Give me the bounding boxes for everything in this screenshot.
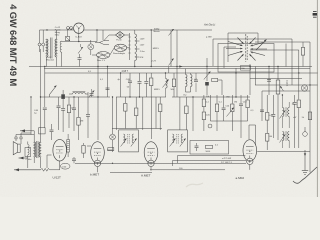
IF transformer B2: [168, 130, 188, 152]
capacitor C21: [267, 80, 271, 82]
wire x250 down from switch: [249, 64, 251, 95]
wire: third bus line: [45, 72, 318, 74]
svg-text:Marg: Marg: [55, 31, 61, 34]
svg-text:4,68 T: 4,68 T: [122, 71, 129, 73]
field coil label: [26, 158, 32, 161]
wire: bottom line y169.8: [152, 169, 225, 171]
wire x179.9: [179, 97, 181, 130]
resistor x232.3: [231, 95, 234, 131]
capacitor C10: [61, 104, 65, 132]
dial lamp La1: [88, 40, 94, 55]
capacitor C15: [138, 73, 142, 97]
IF transformer B1: [119, 130, 139, 152]
svg-text:Punkt: Punkt: [116, 39, 122, 42]
svg-text:x-P/T GW: x-P/T GW: [222, 158, 231, 160]
switch contact S2b lower: [169, 59, 174, 66]
value labels right block: [269, 104, 298, 139]
wire x40.5: [40, 49, 41, 130]
svg-text:2M: 2M: [80, 121, 83, 123]
mixer grid chain x207: [204, 58, 211, 95]
wire x156: [155, 97, 157, 129]
faint paper crease: [186, 183, 203, 187]
resistor column x267: [266, 95, 269, 150]
wire: bus y128.5: [112, 128, 162, 130]
wire x186.4: [185, 97, 188, 130]
label 600 ohm: [154, 29, 161, 34]
resistor column x273: [271, 95, 275, 138]
svg-text:Fkt: Fkt: [242, 67, 245, 70]
capacitor C13: [106, 88, 110, 90]
resistor R3 label: [153, 48, 160, 50]
tube V3 UCH11: [144, 142, 158, 167]
resistor R8: [124, 97, 127, 129]
resistor R7: [82, 143, 85, 158]
svg-text:Netz: Netz: [55, 34, 60, 37]
socket ellipse under tube V1: [60, 163, 70, 169]
tube V1 label UCL11: [53, 176, 62, 180]
wire x286: [285, 44, 287, 67]
resistor x298.8: [250, 50, 300, 148]
capacitor C16: [144, 73, 148, 97]
volume pot P1: [276, 67, 283, 141]
svg-text:b.MET: b.MET: [90, 173, 99, 177]
wire x168.8: [168, 67, 170, 74]
wire x292: [291, 50, 293, 85]
variable coil with arrow: [163, 73, 169, 97]
wire x44.8: [44, 67, 46, 108]
wire x210.4: [209, 95, 211, 121]
capacitor C19 above tube V1: [50, 124, 54, 140]
resistor R14 speaker line zigzag: [41, 164, 60, 172]
wire lamp branch: [62, 29, 98, 42]
wire x310 long: [255, 42, 310, 172]
svg-text:Lautst.: Lautst.: [286, 80, 289, 87]
tap labels: [140, 39, 145, 59]
band switch frame mid: [218, 44, 274, 73]
detector coil pair upper: [280, 95, 290, 128]
svg-text:Messbd: Messbd: [46, 60, 54, 62]
switch arrow big left: [50, 86, 57, 98]
tapped heater dropper coil: [135, 30, 140, 67]
resistor R9: [135, 97, 138, 129]
field coil winding: [25, 142, 31, 161]
trimmer arrow right: [227, 108, 235, 117]
ballast tube / lamp V5 on rail: [74, 23, 84, 33]
switch lever arrow: [256, 40, 267, 51]
band switch frame inner: [224, 47, 236, 68]
corner stamp mark: [313, 12, 317, 18]
speaker feed arrow upper: [20, 129, 34, 134]
cathode resistor V1: [47, 155, 52, 168]
label 2,73: [152, 60, 157, 62]
band switch frame outer: [213, 39, 292, 66]
capacitor C14: [127, 73, 132, 97]
wire: bottom line y172.3: [110, 171, 152, 173]
ground electrode right: [302, 150, 308, 175]
jack circle under divider: [208, 124, 212, 128]
resistor R20: [301, 42, 304, 67]
mains transformer T1: [46, 30, 62, 67]
output network box: [190, 141, 229, 155]
wire x151.5 anode V3: [151, 97, 153, 139]
tube V4 UY11 rectifier: [243, 140, 257, 165]
wire: top supply rail: [40, 29, 213, 30]
svg-text:MΩ15: MΩ15: [154, 89, 160, 91]
svg-text:A.MET: A.MET: [141, 174, 151, 178]
resistor R5: [67, 97, 74, 128]
svg-text:GW: GW: [226, 97, 230, 99]
tube V1 UCL11 output pentode: [53, 139, 67, 161]
wire: right rail y91: [262, 90, 310, 92]
wire x247.6: [246, 95, 249, 121]
volume pot label: [286, 80, 289, 87]
value labels right cluster: [206, 96, 211, 117]
choke label: [113, 52, 125, 55]
loudspeaker LS: [13, 137, 22, 155]
svg-text:4 M: 4 M: [140, 57, 144, 59]
transformer top connection box: [39, 128, 46, 134]
lamp V5 label: [76, 36, 83, 39]
output transformer T2: [33, 130, 41, 168]
label 4,68 T: [122, 71, 129, 73]
wire: agc return y159.6: [173, 160, 246, 166]
wire: mid bus y97 left: [41, 96, 111, 98]
wire: agc return y155.4: [178, 156, 246, 164]
misc text labels mid: [100, 79, 198, 91]
svg-text:Raumladegttr: Raumladegttr: [113, 52, 125, 55]
resistor R21: [302, 112, 312, 120]
trimmer cap with arrow: [89, 89, 95, 98]
resistor R3 10k: [151, 29, 152, 66]
tube V3 label: [141, 174, 151, 178]
fork wires: [92, 35, 130, 55]
diamond label: [116, 39, 122, 42]
resistor chain x203.9: [202, 95, 205, 131]
band switch frame top: [228, 33, 258, 62]
oscillator coil pack: [183, 69, 198, 97]
wire: second bus line: [44, 68, 310, 70]
ticked vertical x129.5: [128, 33, 130, 60]
wire x193: [192, 97, 194, 131]
wire x262: [260, 91, 264, 121]
capacitor C11: [72, 97, 76, 131]
crosshatched diamond: [116, 32, 125, 39]
dial lamp left of B1: [110, 134, 116, 140]
wire: right rail y85: [255, 84, 318, 86]
wire x120.6: [120, 73, 122, 97]
wire y121 link: [210, 120, 247, 122]
fuse box below rail: [66, 30, 70, 41]
wire x88 heater: [86, 92, 90, 138]
cap x294.6: [293, 95, 297, 148]
switch wafer label box: [241, 66, 251, 71]
wire x236 down from switch: [235, 68, 237, 97]
wire x116.6: [116, 97, 118, 130]
switch contact under lamp: [78, 44, 83, 54]
label p GW: [206, 36, 213, 38]
detector coil pair lower: [280, 132, 290, 149]
junction dots row: [44, 66, 311, 171]
wire from V4 right side to x310: [257, 151, 310, 153]
band switch label Ant Gw Lt: [203, 23, 216, 27]
title: model designation 4 GW 648 M/T 49 M (vertical): [8, 4, 19, 86]
label C46: [34, 110, 39, 115]
coupling capacitor C12: [72, 157, 76, 163]
wire x103 top: [102, 30, 104, 40]
heater wiring below tubes: [60, 161, 250, 172]
series resistor horizontal: [212, 78, 222, 95]
svg-text:2 Gw: 2 Gw: [140, 51, 145, 53]
wire: speaker ground lead with arrow: [14, 168, 41, 171]
wire x241: [239, 95, 243, 138]
svg-text:U/12T: U/12T: [53, 176, 62, 180]
page edge line right: [316, 0, 318, 197]
resistor x217: [215, 95, 218, 131]
dial lamp La2 right: [301, 85, 307, 91]
fuse Si on rail: [67, 27, 73, 31]
hatched dropper resistor right of V1: [67, 134, 70, 157]
wire: feedback line y163.3: [75, 162, 246, 164]
wire: right rail y78: [250, 77, 302, 79]
tube V2 UBF11: [91, 142, 105, 167]
svg-text:kΩ: kΩ: [195, 79, 198, 81]
wire x107.5: [107, 67, 109, 98]
wire x142.8: [142, 97, 144, 130]
svg-text:Messtr: Messtr: [154, 30, 161, 33]
wire x255.6: [255, 67, 257, 86]
mains entry connector: [38, 30, 45, 52]
wire x98 long anode: [97, 56, 98, 140]
tube V2 label: [90, 173, 99, 177]
oscillator coil horizontal: [69, 92, 88, 95]
capacitor x223.6: [222, 95, 226, 121]
resistor R11: [159, 97, 162, 130]
capacitor C5: [78, 54, 82, 67]
svg-text:Punkt: Punkt: [55, 28, 61, 31]
resistor R6: [77, 97, 84, 140]
bus flow arrow: [179, 65, 182, 67]
wire: mid bus y97 centre: [116, 96, 166, 98]
hum adjuster oval left: [97, 52, 110, 59]
hum adjuster label: [97, 59, 106, 62]
grid cap V2: [87, 146, 113, 152]
wire x269: [268, 67, 270, 96]
labels on bottom lines: [179, 158, 233, 170]
wire tube V4 anode top: [249, 125, 256, 145]
speaker feed arrow lower: [19, 157, 28, 160]
label row above bus: [46, 57, 92, 73]
capacitor C7: [43, 108, 47, 128]
resistor R22: [172, 73, 175, 97]
svg-text:Ant.Gw.Lt: Ant.Gw.Lt: [203, 23, 216, 27]
wire x177: [176, 30, 177, 97]
resistor R10: [150, 73, 153, 97]
svg-text:Osz: Osz: [183, 94, 187, 96]
label C48: [126, 79, 131, 81]
svg-text:4 GW 648 M/T 49 M: 4 GW 648 M/T 49 M: [8, 4, 19, 86]
capacitor C8 blocking (dark): [61, 90, 65, 104]
svg-text:1M: 1M: [234, 102, 237, 104]
wire x31 to speaker: [30, 96, 31, 134]
capacitor C9: [57, 97, 61, 130]
shaded ellipse choke: [114, 44, 126, 51]
transformer label C-12 Punkt: [55, 27, 61, 37]
wire: mid bus y97 right: [172, 96, 250, 98]
tube V4 label: [236, 176, 245, 180]
jack circle x305: [303, 127, 308, 136]
switch contact S2a on rail: [169, 29, 174, 67]
svg-text:a.M02: a.M02: [236, 176, 245, 180]
signature squiggle bottom right: [293, 167, 317, 183]
svg-text:MΩ15: MΩ15: [153, 48, 160, 50]
grid resistor V3: [108, 148, 114, 151]
wire: main horizontal bus (chassis): [29, 66, 312, 68]
svg-text:Netz 1 V: Netz 1 V: [97, 59, 106, 62]
speaker wiring to transformer: [16, 133, 34, 168]
svg-text:P-T GW 7,5: P-T GW 7,5: [221, 162, 233, 164]
value cluster labels 2: [219, 97, 255, 113]
wire x112.5: [112, 97, 114, 146]
band switch S1 rotary wafer: [226, 34, 267, 62]
svg-text:p.GW: p.GW: [206, 36, 213, 38]
